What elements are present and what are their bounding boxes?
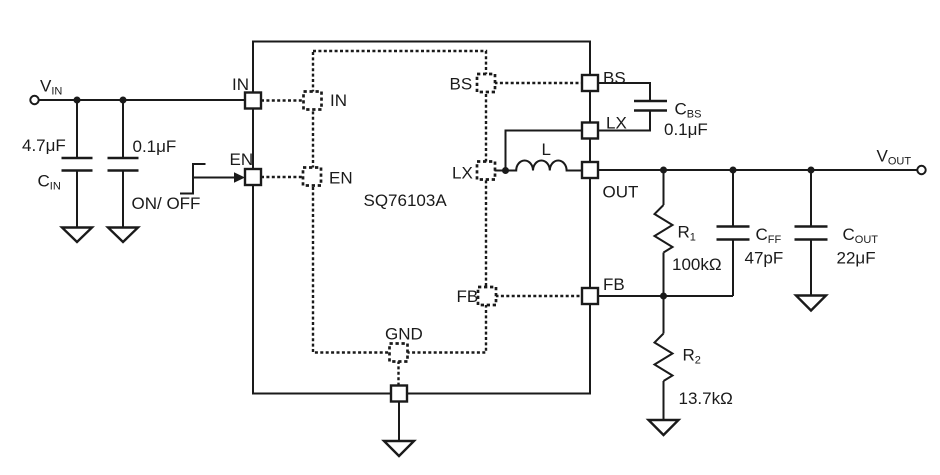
label CFF value: [745, 249, 784, 268]
label CBS: [675, 100, 702, 121]
label CIN: [38, 172, 61, 193]
label R1 value: [672, 255, 722, 274]
pin IN: [245, 93, 261, 109]
capacitor CIN: [62, 158, 93, 171]
svg-text:IN: IN: [330, 91, 347, 110]
svg-text:FB: FB: [457, 287, 479, 306]
svg-text:EN: EN: [230, 150, 254, 169]
node junction R1: [660, 167, 667, 174]
EN step waveform symbol: [180, 164, 206, 194]
wire LX node up to LX pin: [506, 131, 583, 171]
capacitor 0.1uF input: [108, 158, 139, 171]
wire dashed FB cell to FB pin: [496, 295, 583, 297]
cell LX dashed square: [477, 162, 495, 180]
wire 0.1uF top lead: [122, 100, 124, 157]
cell EN dashed square: [303, 168, 321, 186]
capacitor CFF: [717, 170, 750, 296]
svg-text:OUT: OUT: [603, 183, 639, 202]
wire GND pin to ground: [398, 402, 400, 442]
svg-text:13.7kΩ: 13.7kΩ: [679, 389, 733, 408]
label cell FB: [457, 287, 479, 306]
wire dashed GND cell to GND pin: [397, 361, 399, 386]
label cell EN: [329, 169, 353, 188]
label pin LX: [606, 114, 627, 133]
wire 0.1uF bottom lead: [122, 171, 124, 228]
terminal VOUT: [917, 166, 925, 174]
label COUT value: [837, 249, 876, 268]
label R2 value: [679, 389, 733, 408]
wire VIN rail: [39, 99, 246, 101]
svg-text:BS: BS: [450, 75, 473, 94]
resistor R1: [655, 170, 673, 296]
label pin IN: [232, 75, 249, 94]
svg-text:0.1μF: 0.1μF: [664, 120, 708, 139]
wire dashed IN pin to IN cell: [261, 99, 304, 101]
capacitor CBS: [634, 101, 667, 111]
label R2: [683, 346, 701, 367]
IC inner dashed block: [313, 51, 486, 353]
svg-text:GND: GND: [385, 325, 423, 344]
cell IN dashed square: [304, 92, 322, 110]
label CFF: [756, 225, 782, 246]
svg-text:FB: FB: [603, 275, 625, 294]
pin BS: [582, 75, 598, 91]
label pin FB: [603, 275, 625, 294]
ground GND pin: [384, 441, 414, 456]
node junction FB: [660, 293, 667, 300]
ground R2: [649, 420, 679, 435]
svg-text:L: L: [542, 140, 551, 159]
label R1: [678, 223, 696, 244]
wire FB rail: [598, 295, 733, 297]
label cell IN: [330, 91, 347, 110]
label 0.1uF input: [133, 137, 177, 156]
label ON/OFF: [132, 194, 201, 213]
ground 0.1uF: [108, 228, 138, 243]
inductor L: [506, 161, 583, 171]
wire BS pin to CBS: [598, 83, 650, 100]
label pin EN: [230, 150, 254, 169]
label 4.7uF: [22, 136, 66, 155]
pin OUT: [582, 162, 598, 178]
cell GND dashed square: [390, 344, 408, 362]
node junction COUT: [808, 167, 815, 174]
IC U1 outer box: [253, 42, 590, 394]
ground CIN: [62, 228, 92, 243]
wire CBS to LX pin: [598, 111, 650, 131]
cell FB dashed square: [478, 287, 496, 305]
label SQ76103A: [364, 191, 448, 210]
EN drive arrow: [193, 172, 245, 183]
wire dashed EN pin to EN cell: [261, 176, 304, 178]
resistor R2: [655, 296, 673, 420]
pin LX: [582, 123, 598, 139]
node LX junction: [502, 167, 509, 174]
svg-text:0.1μF: 0.1μF: [133, 137, 177, 156]
node junction CFF: [730, 167, 737, 174]
label pin BS: [603, 69, 626, 88]
svg-text:100kΩ: 100kΩ: [672, 255, 722, 274]
label VIN: [40, 77, 62, 98]
label pin OUT: [603, 183, 639, 202]
svg-text:4.7μF: 4.7μF: [22, 136, 66, 155]
capacitor COUT: [795, 170, 828, 296]
wire LX cell to node: [495, 170, 506, 172]
wire dashed BS cell to BS pin: [495, 82, 583, 84]
cell BS dashed square: [477, 74, 495, 92]
label cell BS: [450, 75, 473, 94]
node junction CIN: [74, 97, 81, 104]
svg-text:SQ76103A: SQ76103A: [364, 191, 448, 210]
pin FB: [582, 288, 598, 304]
svg-text:47pF: 47pF: [745, 249, 784, 268]
label GND: [385, 325, 423, 344]
svg-text:LX: LX: [452, 164, 473, 183]
node junction 0.1uF: [120, 97, 127, 104]
terminal VIN: [30, 96, 38, 104]
wire CIN bottom lead: [76, 171, 78, 228]
wire CIN top lead: [76, 100, 78, 157]
label L: [542, 140, 551, 159]
pin EN: [245, 169, 261, 185]
label cell LX: [452, 164, 473, 183]
wire OUT rail: [598, 169, 918, 171]
label CBS value: [664, 120, 708, 139]
svg-text:BS: BS: [603, 69, 626, 88]
svg-text:IN: IN: [232, 75, 249, 94]
pin GND: [391, 386, 407, 402]
label COUT: [843, 225, 879, 246]
svg-text:22μF: 22μF: [837, 249, 876, 268]
label VOUT: [877, 147, 912, 168]
svg-text:ON/ OFF: ON/ OFF: [132, 194, 201, 213]
svg-text:EN: EN: [329, 169, 353, 188]
ground COUT: [796, 296, 826, 311]
